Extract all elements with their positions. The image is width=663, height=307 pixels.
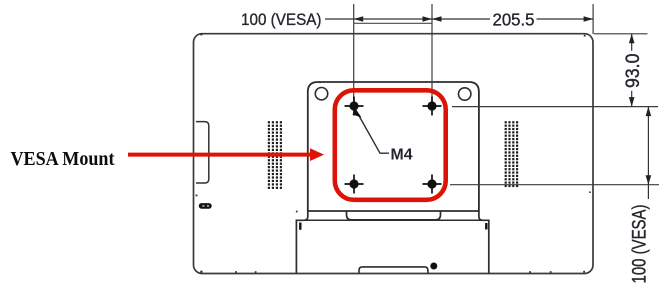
dim text 93.0 rotated: [623, 51, 644, 91]
tiny edge tick marks: [196, 33, 591, 273]
VESA hole bottom-left: [349, 179, 358, 188]
VESA hole top-left: [349, 101, 358, 110]
left connector pill: [199, 203, 212, 209]
svg-text:93.0: 93.0: [623, 54, 644, 89]
power button dot: [430, 263, 437, 270]
svg-text:100 (VESA): 100 (VESA): [630, 205, 651, 284]
M4 leader line: [358, 114, 389, 153]
svg-text:100 (VESA): 100 (VESA): [241, 10, 322, 29]
red arrow shaft: [128, 153, 312, 157]
hole row1 extension line: [452, 106, 658, 108]
top edge extension right: [594, 33, 648, 35]
VESA plate: [308, 82, 479, 211]
red arrowhead: [310, 148, 324, 161]
stand pedestal top + steps: [296, 211, 307, 273]
bottom slot: [359, 267, 428, 274]
handle recess below plate: [347, 211, 441, 220]
left vent grid: [268, 121, 282, 189]
extension line VESA column 2: [431, 4, 433, 106]
top dimension line segments: [325, 18, 490, 20]
svg-text:VESA Mount: VESA Mount: [11, 148, 115, 170]
pedestal tick left: [299, 223, 301, 230]
dim text 100 (VESA) rotated: [630, 205, 651, 284]
extension line monitor right edge up: [592, 4, 594, 34]
monitor body outline: [194, 34, 594, 274]
VESA plate bottom edge: [308, 210, 479, 212]
right vent grid: [505, 121, 519, 187]
right 100 (VESA) dimension line: [647, 107, 649, 199]
left side connector cover: [196, 122, 209, 183]
M4 leader arrowhead: [353, 109, 362, 118]
93.0 dimension line: [631, 34, 633, 107]
hole row2 extension line: [450, 184, 659, 186]
svg-text:205.5: 205.5: [493, 9, 535, 29]
VESA hole bottom-right: [427, 179, 436, 188]
pedestal tick right: [485, 223, 487, 230]
VESA hole top-right: [427, 101, 436, 110]
svg-text:M4: M4: [391, 147, 413, 164]
plate screw hole right: [459, 88, 471, 100]
arrows at col2: [423, 16, 433, 22]
arrow at right edge pointing right: [584, 16, 594, 22]
arrow at col1 pointing left: [354, 16, 364, 22]
secondary dim line between VESA columns: [354, 22, 432, 24]
extension line VESA column 1: [353, 4, 355, 106]
plate screw hole left: [315, 88, 327, 100]
red highlight rounded box: [335, 90, 446, 200]
